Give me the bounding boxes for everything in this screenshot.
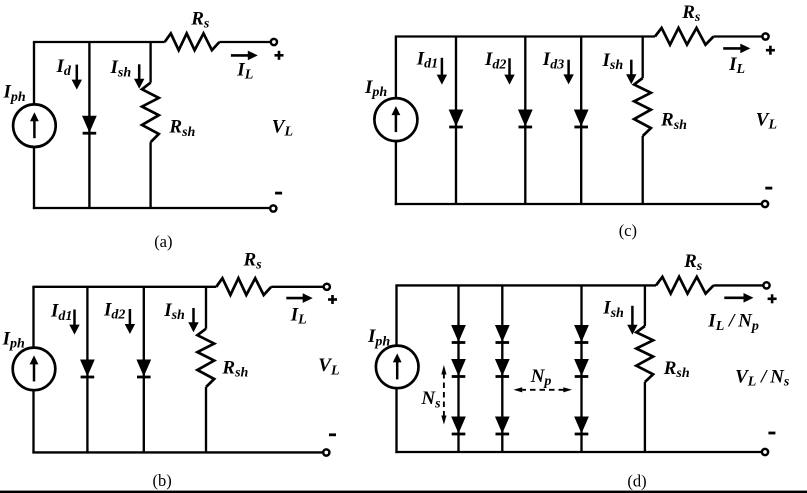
svg-text:Iph: Iph (3, 82, 26, 105)
current source Iph (d) (376, 346, 419, 389)
node (d) + output terminal (763, 282, 769, 288)
wire (a) left branch upper (33, 42, 35, 105)
svg-text:Id1: Id1 (50, 301, 72, 324)
svg-text:VL: VL (318, 355, 339, 378)
arrow Id3 (c) (563, 60, 573, 85)
svg-text:Id: Id (56, 56, 72, 79)
label plus (b) (328, 295, 337, 304)
wire (c) diode branch 3 (580, 37, 582, 205)
svg-text:Ish: Ish (602, 50, 624, 73)
label minus (c) (765, 187, 772, 190)
diode D12 (d) (452, 360, 466, 377)
svg-text:Ish: Ish (110, 57, 132, 80)
wire (a) top bus (33, 41, 165, 43)
node (a) - output terminal (270, 205, 276, 211)
label plus (d) (768, 294, 777, 303)
diode D13 (d) (452, 417, 466, 434)
wire (b) left branch upper (32, 287, 34, 349)
arrow Id2 (c) (504, 58, 514, 84)
wire (b) left branch lower (32, 390, 34, 453)
svg-text:Rsh: Rsh (663, 358, 690, 381)
svg-text:Rs: Rs (190, 8, 210, 31)
arrow IL (c) (723, 44, 750, 54)
svg-text:Id1: Id1 (416, 49, 438, 72)
label plus (c) (766, 46, 775, 55)
diode D2 (b) (137, 360, 151, 377)
svg-text:(b): (b) (153, 471, 172, 490)
resistor Rs (a) (165, 33, 220, 50)
svg-text:(d): (d) (627, 472, 646, 491)
wire (c) diode branch 1 (455, 37, 457, 205)
wire (d) diode branch 3 (580, 285, 582, 452)
wire (b) bottom bus (32, 451, 323, 453)
svg-text:(a): (a) (154, 232, 172, 251)
arrow Ish (c) (626, 60, 636, 84)
svg-text:Iph: Iph (367, 326, 390, 349)
resistor Rsh (c) (634, 78, 651, 136)
svg-text:Rsh: Rsh (221, 358, 248, 381)
diode D32 (d) (575, 360, 589, 377)
wire (c) top bus (395, 35, 655, 37)
arrow Id2 (b) (125, 309, 135, 334)
svg-text:VL: VL (756, 109, 777, 132)
svg-text:Id3: Id3 (542, 49, 564, 72)
wire (b) Rsh branch upper (205, 287, 207, 329)
svg-text:Rs: Rs (683, 251, 703, 274)
svg-text:VL: VL (272, 116, 293, 139)
svg-text:Ns: Ns (420, 388, 441, 411)
arrow Ish (b) (188, 308, 198, 332)
svg-text:(c): (c) (619, 221, 637, 240)
wire (c) left branch lower (395, 141, 397, 205)
arrow Id1 (b) (69, 310, 79, 335)
svg-text:Rsh: Rsh (660, 110, 687, 133)
svg-text:IL: IL (290, 304, 307, 327)
svg-text:Rs: Rs (243, 249, 263, 272)
svg-text:IL: IL (236, 60, 253, 83)
node (b) + output terminal (324, 284, 330, 290)
diode D3 (c) (574, 110, 588, 127)
dimension arrow Ns (d) (441, 365, 446, 425)
svg-text:Id2: Id2 (103, 299, 125, 322)
diode D (a) (83, 116, 97, 133)
wire (b) Rs to + terminal (271, 286, 324, 288)
wire (b) Rsh branch lower (205, 387, 207, 452)
svg-text:Ish: Ish (602, 298, 624, 321)
wire (b) diode branch 2 (143, 287, 145, 453)
wire (d) top bus (395, 284, 656, 286)
wire (d) bottom bus (395, 451, 762, 453)
arrow Ish (d) (627, 306, 637, 335)
wire (d) diode branch 2 (501, 285, 503, 452)
wire (c) Rsh branch upper (642, 37, 644, 79)
node (d) - output terminal (762, 449, 768, 455)
wire (c) Rs to + terminal (714, 35, 763, 37)
wire (c) Rsh branch lower (642, 136, 644, 204)
wire (a) diode branch (88, 42, 90, 208)
current source Iph (a) (13, 104, 56, 147)
node (c) + output terminal (762, 33, 768, 39)
resistor Rsh (a) (142, 83, 159, 143)
diode D33 (d) (575, 417, 589, 434)
node (c) - output terminal (762, 201, 768, 207)
bottom rule (0, 491, 807, 493)
node (a) + output terminal (271, 39, 277, 45)
wire (b) top bus (32, 286, 216, 288)
wire (a) Rs to + terminal (219, 41, 271, 43)
resistor Rs (c) (655, 28, 714, 45)
arrow IL/Np (d) (724, 293, 753, 303)
wire (d) left branch lower (395, 388, 397, 453)
svg-text:IL / Np: IL / Np (707, 311, 759, 334)
svg-text:VL / Ns: VL / Ns (735, 366, 790, 389)
arrow IL (b) (286, 293, 312, 303)
wire (a) bottom bus (33, 207, 271, 209)
wire (a) Rsh branch lower (149, 142, 151, 208)
node (b) - output terminal (323, 449, 329, 455)
wire (d) Rs to + terminal (714, 284, 764, 286)
diode D21 (d) (496, 326, 510, 343)
svg-text:Iph: Iph (2, 328, 25, 351)
wire (a) Rsh branch upper (149, 42, 151, 83)
diode D11 (d) (452, 326, 466, 343)
svg-text:IL: IL (728, 54, 745, 77)
arrow Id1 (c) (437, 58, 447, 85)
svg-text:Np: Np (530, 366, 552, 389)
label plus (a) (275, 51, 284, 60)
diode D22 (d) (496, 360, 510, 377)
arrow Id (a) (72, 65, 82, 90)
wire (a) left branch lower (33, 147, 35, 209)
wire (d) Rsh branch upper (644, 285, 646, 326)
svg-text:Id2: Id2 (484, 49, 506, 72)
current source Iph (c) (374, 98, 417, 141)
wire (d) left branch upper (395, 285, 397, 346)
diode D2 (c) (519, 110, 533, 127)
resistor Rs (d) (656, 277, 714, 294)
current source Iph (b) (13, 348, 56, 391)
wire (d) diode branch 1 (457, 285, 459, 452)
svg-text:Rs: Rs (681, 2, 701, 25)
svg-text:Ish: Ish (163, 300, 185, 323)
diode D31 (d) (575, 326, 589, 343)
dimension arrow Np (d) (514, 387, 573, 392)
label minus (b) (329, 433, 336, 436)
wire (c) diode branch 2 (524, 37, 526, 205)
arrow Ish (a) (134, 64, 144, 88)
diode D1 (c) (449, 110, 463, 127)
resistor Rsh (b) (197, 329, 214, 387)
wire (d) Rsh branch lower (644, 382, 646, 452)
diode D23 (d) (496, 417, 510, 434)
wire (b) diode branch 1 (86, 287, 88, 453)
svg-text:Rsh: Rsh (168, 117, 195, 140)
resistor Rs (b) (216, 278, 271, 295)
diode D1 (b) (81, 360, 95, 377)
label minus (d) (768, 432, 775, 435)
svg-text:Iph: Iph (364, 77, 387, 100)
arrow IL (a) (231, 51, 258, 61)
wire (c) left branch upper (395, 37, 397, 100)
wire (c) bottom bus (395, 203, 762, 205)
resistor Rsh (d) (636, 326, 653, 382)
label minus (a) (275, 192, 282, 195)
